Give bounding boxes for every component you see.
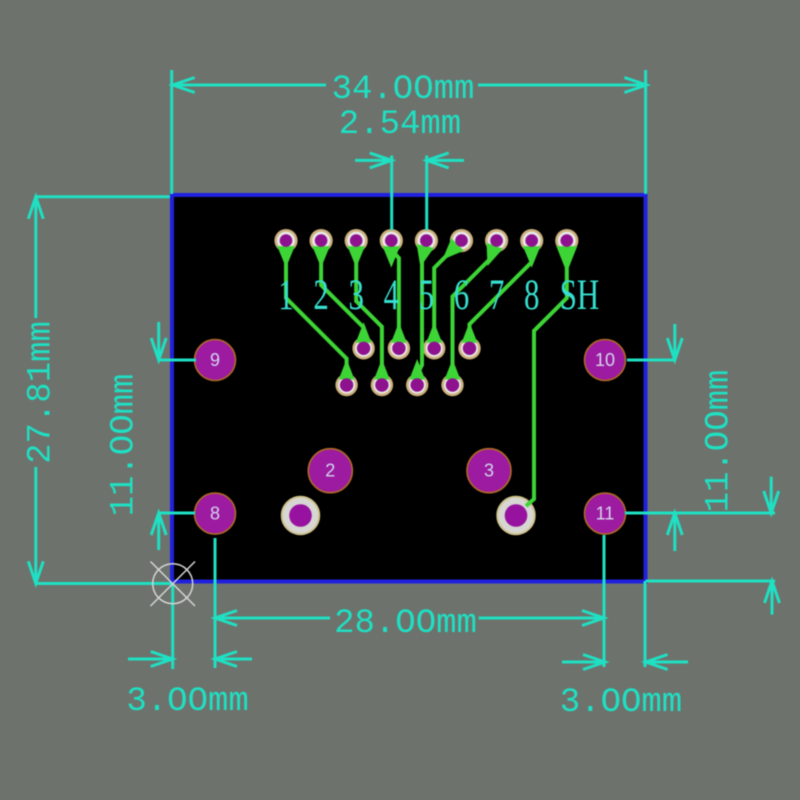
trace pad 8 to inner pad — [462, 241, 541, 349]
trace pad 6 to inner pad — [426, 238, 464, 348]
inner upper row pad 1 hole — [357, 342, 370, 355]
svg-text:8: 8 — [210, 504, 220, 524]
connector pin pad 4 rings (top row) — [380, 229, 403, 252]
dimension 3.00mm bottom right — [560, 581, 688, 722]
inner upper row pad 4 hole — [463, 342, 476, 355]
svg-text:3.OOmm: 3.OOmm — [126, 683, 248, 721]
svg-text:3.OOmm: 3.OOmm — [560, 684, 682, 722]
dimension 3.00mm bottom left — [126, 584, 252, 721]
dimension 11.00mm right (pad 10 to pad 11) — [625, 324, 775, 551]
mounting pad 8 — [195, 493, 236, 534]
connector pin pad SH hole — [561, 234, 574, 247]
connector pin pad 8 rings (top row) — [520, 229, 543, 252]
svg-text:3: 3 — [348, 272, 363, 319]
svg-text:2.54mm: 2.54mm — [339, 106, 461, 144]
inner lower row pad 4 hole — [446, 378, 459, 391]
svg-text:SH: SH — [560, 272, 600, 319]
connector pin pad 1 hole — [280, 234, 293, 247]
svg-text:2: 2 — [313, 272, 328, 319]
connector pin pad 8 hole — [525, 234, 538, 247]
inner lower row pad 1 rings — [335, 374, 357, 396]
shield mounting hole right ring — [497, 497, 534, 534]
svg-text:7: 7 — [489, 272, 504, 319]
inner lower row pad 3 hole — [411, 378, 424, 391]
trace pad 2 to inner pad — [312, 241, 371, 349]
connector pin pad 5 hole — [420, 234, 433, 247]
inner upper row pad 4 rings — [458, 337, 480, 359]
svg-text:11.OOmm: 11.OOmm — [106, 374, 144, 517]
origin marker crosshair at board corner — [151, 562, 196, 607]
svg-text:9: 9 — [210, 350, 220, 370]
connector pin pad 4 hole — [385, 234, 398, 247]
connector pin pad SH rings (top row) — [555, 229, 578, 252]
mounting pad 3 — [467, 449, 511, 493]
connector pin pad 6 hole — [455, 234, 468, 247]
inner upper row pad 1 rings — [352, 337, 374, 359]
connector pin pad 5 rings (top row) — [415, 229, 438, 252]
svg-text:27.81mm: 27.81mm — [23, 321, 61, 464]
connector pin pad 3 rings (top row) — [345, 229, 368, 252]
trace pad 4 to inner pad — [383, 241, 407, 349]
connector pin pad 2 hole — [315, 234, 328, 247]
mounting pad 10 — [585, 340, 626, 381]
svg-text:6: 6 — [454, 272, 469, 319]
svg-text:11: 11 — [596, 504, 615, 524]
svg-text:3: 3 — [484, 461, 494, 481]
dimension 11.00mm left (pad 9 to pad 8) — [106, 322, 196, 550]
inner lower row pad 1 hole — [340, 378, 353, 391]
svg-text:8: 8 — [524, 272, 539, 319]
connector pin pad 3 hole — [350, 234, 363, 247]
svg-text:4: 4 — [384, 272, 400, 319]
connector pin pad 6 rings (top row) — [450, 229, 473, 252]
dimension 28.00mm (pad 8 to pad 11) — [215, 535, 604, 668]
mounting pad 9 — [195, 340, 236, 381]
dimension pad 11 to board bottom edge (far right) — [646, 477, 780, 615]
shield mounting hole right core — [505, 504, 528, 527]
svg-text:10: 10 — [595, 350, 615, 370]
mounting pad 11 — [585, 493, 626, 534]
dimension 27.81mm board height — [23, 197, 172, 584]
svg-text:11.OOmm: 11.OOmm — [701, 370, 739, 513]
dimension 34.00mm board width — [172, 70, 647, 194]
inner upper row pad 2 hole — [392, 342, 405, 355]
trace pad 3 to inner pad — [347, 241, 389, 385]
inner lower row pad 4 rings — [441, 374, 463, 396]
inner lower row pad 2 hole — [375, 378, 388, 391]
svg-text:2: 2 — [325, 461, 335, 481]
trace pad 1 to inner pad — [277, 241, 354, 385]
inner lower row pad 3 rings — [406, 374, 428, 396]
trace pad 5 to inner pad — [409, 241, 434, 385]
svg-text:1: 1 — [278, 272, 293, 319]
svg-text:5: 5 — [419, 272, 434, 319]
trace SH pad to shield mounting hole — [526, 241, 577, 506]
mounting pad 2 — [308, 449, 352, 493]
inner upper row pad 2 rings — [388, 337, 410, 359]
svg-text:28.OOmm: 28.OOmm — [334, 605, 477, 643]
inner lower row pad 2 rings — [371, 374, 393, 396]
dimension 2.54mm pin pitch — [339, 106, 464, 230]
inner upper row pad 3 hole — [428, 342, 441, 355]
trace pad 7 to inner pad — [445, 241, 503, 385]
svg-text:34.OOmm: 34.OOmm — [332, 71, 475, 109]
connector pin pad 1 rings (top row) — [274, 229, 297, 252]
PCB board outline — [172, 195, 646, 582]
shield mounting hole left ring — [282, 497, 319, 534]
shield mounting hole left core — [289, 504, 312, 527]
inner upper row pad 3 rings — [423, 337, 445, 359]
connector pin pad 7 rings (top row) — [485, 229, 508, 252]
connector pin pad 2 rings (top row) — [310, 229, 333, 252]
connector pin pad 7 hole — [490, 234, 503, 247]
